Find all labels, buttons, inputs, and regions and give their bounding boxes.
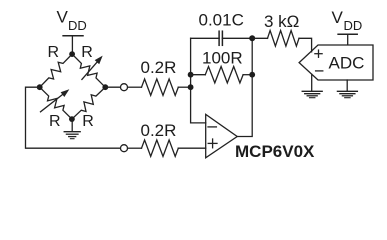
node VDD supply left label	[57, 8, 87, 34]
resistor R top-left bridge arm	[40, 54, 72, 87]
svg-text:V: V	[57, 8, 69, 27]
ADC block	[299, 45, 373, 80]
ADC minus symbol	[316, 70, 323, 72]
svg-text:R: R	[81, 44, 93, 61]
svg-text:100R: 100R	[202, 49, 243, 68]
ADC plus symbol	[315, 53, 322, 55]
arrow on top-right arm	[82, 59, 100, 79]
node bridge bottom	[69, 116, 75, 122]
svg-text:V: V	[332, 8, 344, 27]
node VDD supply right label	[332, 8, 363, 33]
resistor R bottom-right bridge arm	[72, 87, 105, 119]
svg-text:R: R	[49, 113, 61, 130]
connector circle bottom	[121, 145, 128, 152]
node bridge left	[37, 84, 43, 90]
ground ADC bottom	[337, 90, 357, 92]
wire resistor to inverting node	[178, 86, 190, 88]
svg-text:0.01C: 0.01C	[199, 11, 244, 30]
VDD bar right	[338, 33, 357, 35]
ground bridge	[71, 119, 73, 131]
wire 3k to ADC plus input	[299, 38, 312, 52]
wire VDD to ADC top	[347, 34, 349, 45]
resistor R bottom-left bridge arm (variable)	[40, 87, 72, 119]
resistor 0.2R bottom	[142, 140, 179, 156]
wire VDD to bridge top	[71, 36, 73, 54]
svg-text:3 kΩ: 3 kΩ	[264, 12, 299, 31]
resistor 3k	[252, 37, 267, 39]
wire ADC bottom to ground	[346, 80, 348, 91]
op-amp MCP6V0X	[206, 114, 238, 157]
node bridge right	[102, 84, 108, 90]
wire output vertical	[237, 38, 252, 136]
node 100R left junction	[188, 72, 194, 78]
svg-text:R: R	[82, 113, 94, 130]
svg-text:0.2R: 0.2R	[141, 58, 177, 77]
ground ADC minus	[302, 90, 322, 92]
connector circle top	[121, 84, 128, 91]
svg-text:R: R	[48, 44, 60, 61]
plus input symbol	[208, 142, 217, 144]
minus input symbol	[208, 126, 216, 128]
node 100R right junction	[249, 72, 255, 78]
node 0.2R junction	[188, 84, 194, 90]
svg-text:DD: DD	[344, 18, 363, 33]
wire ADC minus to ground	[311, 74, 313, 91]
capacitor 0.01C	[191, 37, 220, 39]
resistor 0.2R top	[142, 79, 179, 95]
wire circle to resistor	[128, 147, 142, 149]
wire bridge left node to bottom row	[26, 87, 121, 148]
resistor 100R	[191, 74, 206, 76]
arrow on bottom-left arm	[41, 92, 66, 112]
svg-text:0.2R: 0.2R	[141, 121, 177, 140]
resistor R top-right bridge arm (variable)	[72, 54, 105, 87]
svg-text:MCP6V0X: MCP6V0X	[235, 142, 315, 161]
wire inverting vertical	[191, 38, 206, 123]
svg-text:DD: DD	[68, 18, 87, 33]
wire to op-amp + input	[178, 147, 205, 149]
node bridge top	[69, 51, 75, 57]
node feedback top junction	[249, 35, 255, 41]
wire circle to resistor	[128, 86, 142, 88]
VDD bar left	[63, 35, 83, 37]
wire bridge right node to connector	[105, 86, 120, 88]
svg-text:ADC: ADC	[329, 54, 365, 73]
